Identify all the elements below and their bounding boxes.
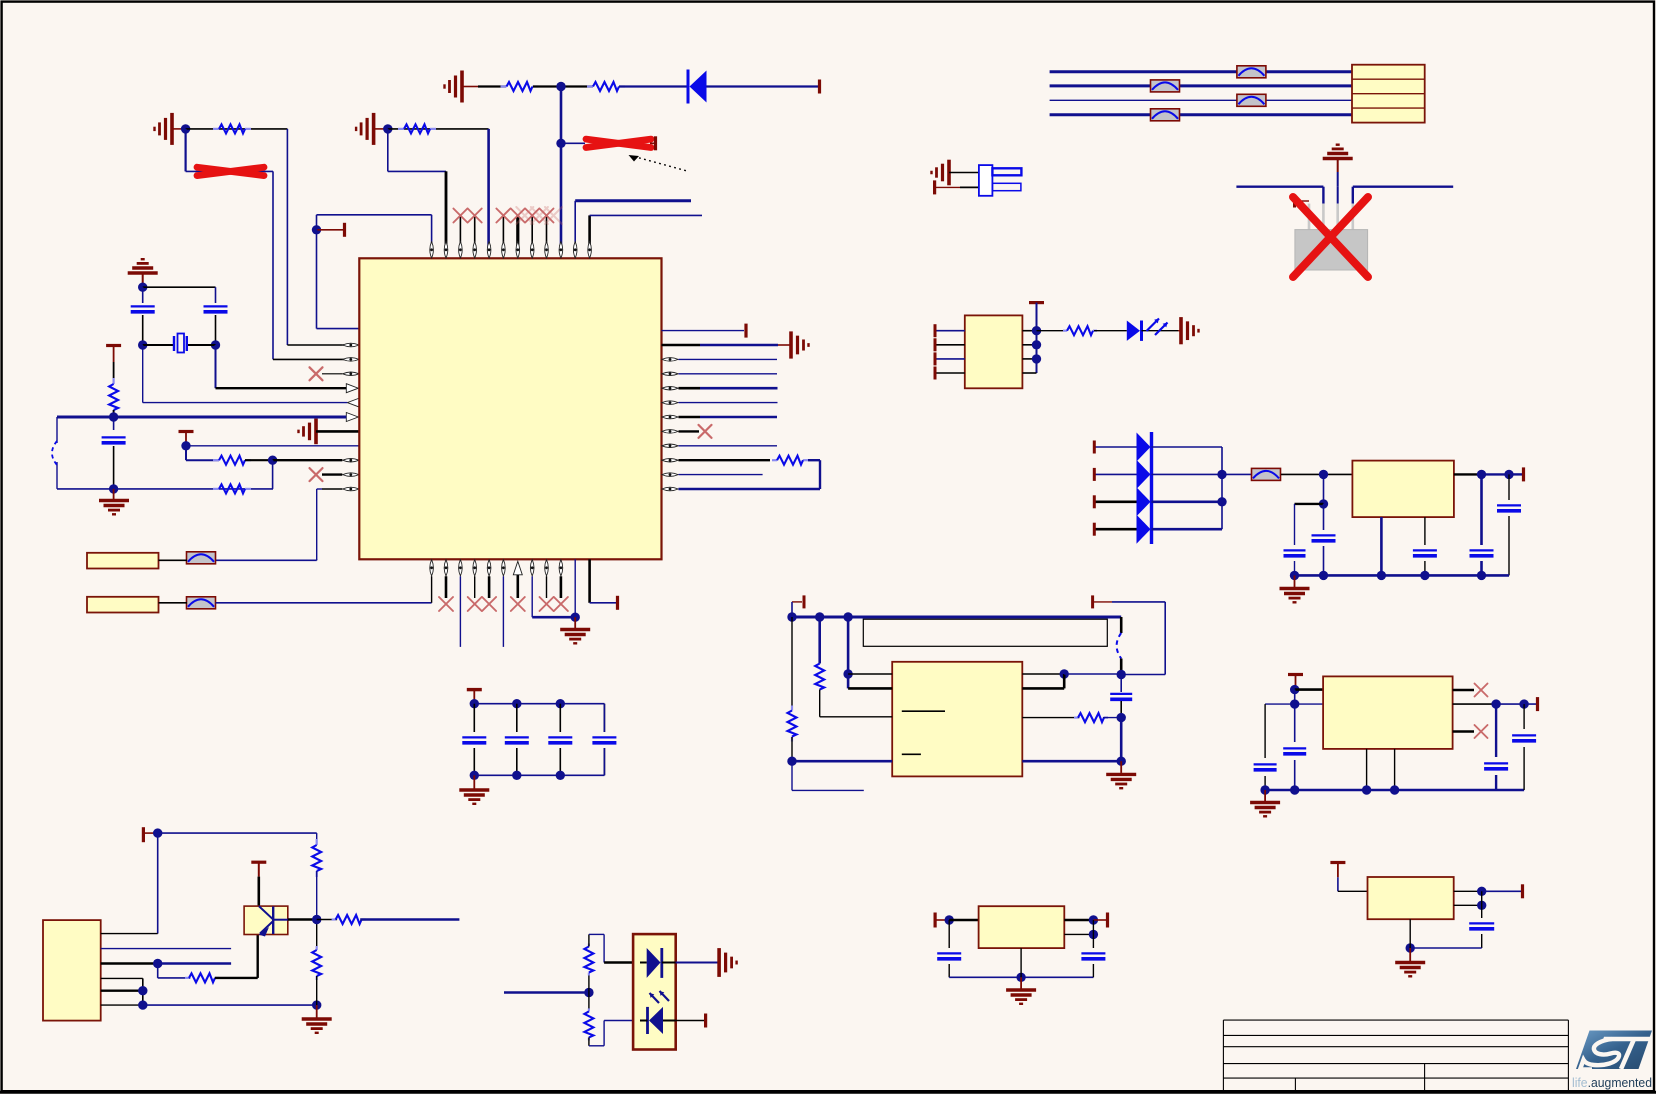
svg-text:life.augmented: life.augmented	[1572, 1076, 1652, 1090]
